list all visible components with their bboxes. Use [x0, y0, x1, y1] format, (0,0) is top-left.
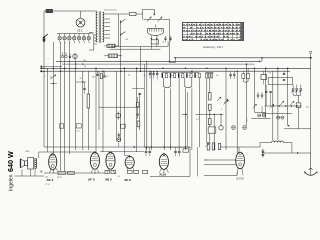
wire vertical u [178, 78, 180, 150]
svg-text:0,1: 0,1 [106, 76, 109, 78]
voltage table cell entries [183, 25, 243, 40]
tube pin wires V1 [50, 168, 52, 173]
tube V2 AF3 [90, 152, 99, 169]
bus junction dots [43, 68, 45, 70]
wire AVC bus [56, 60, 259, 62]
wire bottom resistor row [44, 172, 105, 174]
wire heater [104, 45, 107, 47]
wire mains section verticals [140, 47, 142, 72]
svg-text:25: 25 [128, 75, 130, 77]
wire vertical p [139, 93, 141, 130]
resistor R15 [136, 103, 139, 107]
coupling parts left of V5 [145, 151, 148, 153]
pickup jacks [62, 53, 64, 56]
svg-text:0,5: 0,5 [216, 75, 219, 77]
resistor R12 [128, 170, 133, 173]
capacitor C2 [169, 37, 171, 39]
wire vertical z9 [287, 68, 289, 125]
tube pin wires V6 [237, 168, 238, 175]
ground jack [69, 54, 71, 57]
dial pointer tick [154, 24, 156, 27]
power transformer T1 secondary [102, 12, 103, 42]
svg-text:5: 5 [287, 109, 288, 111]
capacitor C4 [103, 75, 105, 77]
wire top right loop [268, 76, 292, 78]
diode arrow D1 [120, 19, 126, 22]
transformer secondary taps [104, 13, 110, 15]
wire vertical z1 [213, 114, 215, 150]
resistor R6 [209, 104, 212, 110]
screen bus dots [75, 63, 76, 64]
wire vertical s [163, 89, 165, 151]
wire bridge left [50, 83, 57, 85]
svg-text:6: 6 [173, 75, 174, 77]
wire vertical k [102, 71, 104, 152]
tube pin wires V3 [107, 170, 108, 174]
output transformer right [272, 141, 284, 143]
wire mains left vertical [43, 11, 45, 68]
IF filter cluster 2 [206, 72, 214, 74]
wire selector to transformer [89, 32, 93, 34]
oscillator trimmer pair [232, 126, 236, 130]
wire gang bottom [293, 94, 301, 96]
wire vertical z4 [245, 64, 247, 126]
power transformer T1 core [98, 11, 100, 43]
svg-text:1: 1 [157, 80, 158, 82]
wire output to ground line [262, 152, 311, 154]
trimmer arrow P4 [253, 104, 257, 108]
wire vertical w [191, 89, 193, 151]
svg-text:6: 6 [195, 75, 196, 77]
wire antenna down [310, 58, 312, 153]
resistor R1 heater dropper [107, 44, 115, 47]
svg-text:0,1: 0,1 [118, 176, 121, 178]
trimmer arrow P5 [270, 104, 274, 108]
diode arrow D2 [120, 32, 126, 35]
phono socket [116, 113, 121, 118]
svg-text:≈50: ≈50 [125, 39, 128, 41]
voltage table grid [183, 23, 244, 41]
IF filter component row [162, 72, 200, 74]
svg-text:50: 50 [50, 77, 52, 79]
choke L1 hum filter [109, 54, 118, 58]
resistor R3 [87, 94, 90, 108]
resistor R2 [130, 13, 137, 16]
osc section wire h1 [265, 105, 302, 107]
osc caps [229, 73, 231, 75]
tube pin wires V4 [126, 167, 128, 171]
svg-text:150Ω: 150Ω [25, 151, 30, 153]
svg-text:20: 20 [80, 78, 82, 80]
capacitor C3 [96, 74, 98, 76]
rectifier tube V8 top view [76, 18, 85, 27]
junction dot heater [134, 146, 136, 148]
resistor R5 [209, 93, 212, 101]
padder trimmers [258, 114, 261, 117]
wire vertical n [123, 68, 125, 147]
wire vertical g [75, 60, 77, 150]
svg-text:Ingelen: Ingelen [9, 174, 15, 191]
tube pin wires V5 [159, 169, 161, 173]
power transformer T1 primary [96, 12, 97, 42]
wire vertical q [146, 61, 148, 150]
antenna link tick [261, 58, 263, 62]
svg-text:0,1: 0,1 [77, 131, 80, 133]
svg-text:2M: 2M [92, 77, 95, 79]
svg-text:AF 3: AF 3 [88, 177, 95, 181]
svg-text:JT 14: JT 14 [45, 184, 49, 186]
capacitor C5 [139, 93, 141, 95]
trimmer arrow P8 [290, 101, 294, 105]
wire right v [298, 95, 300, 103]
wire HT bus [41, 67, 311, 69]
trimmer arrow P1 [147, 17, 151, 22]
resistor R11 [105, 170, 110, 173]
wire vertical e [64, 42, 66, 171]
resistor R8 [261, 75, 267, 80]
wire vertical d [60, 42, 62, 171]
wire dial return upper [111, 46, 168, 48]
trimmer arrow P2 [158, 17, 162, 22]
speaker bottom rail [15, 175, 45, 177]
svg-text:AL 4: AL 4 [159, 173, 166, 177]
tube V1 AK2 [49, 154, 57, 170]
svg-text:4μ 2μ: 4μ 2μ [57, 177, 62, 179]
wire bridge mid [76, 81, 86, 83]
wire detector h [196, 113, 223, 115]
wire V6 top [238, 147, 240, 153]
wire vertical o [136, 68, 138, 152]
speaker right connection [259, 143, 261, 148]
capacitor C9 [261, 94, 263, 96]
wire v5 top [144, 146, 190, 148]
svg-text:EF 6: EF 6 [125, 178, 132, 182]
svg-text:1: 1 [60, 131, 61, 133]
wire choke [104, 55, 108, 57]
bus terminal dots [40, 67, 42, 69]
svg-text:220 150 125 110: 220 150 125 110 [104, 10, 117, 12]
tube V5 output [159, 154, 168, 169]
osc section wire h2 [262, 112, 292, 114]
diode arrow D3 [154, 9, 155, 15]
wire transformer top tap [110, 13, 129, 15]
trimmer arrow left [50, 75, 56, 79]
field coil wires [38, 152, 40, 158]
wire vertical v [185, 89, 187, 151]
phono jack [73, 54, 77, 58]
tube V6 [236, 152, 245, 168]
junction dots detector [209, 114, 210, 115]
svg-text:40: 40 [84, 66, 86, 68]
resistor R16 [120, 124, 125, 128]
wire to dial loop [136, 13, 143, 15]
wire right of V5 vertical [187, 92, 189, 147]
svg-text:0,3: 0,3 [269, 73, 272, 75]
wire vertical z7 [272, 71, 274, 140]
electrolytic C7 [219, 126, 223, 130]
wire rectifier anode [80, 11, 82, 18]
wire vertical i [95, 68, 97, 152]
wire vertical c [52, 42, 54, 154]
wire vertical r [150, 71, 152, 150]
wire vertical z5 [254, 68, 256, 112]
wire dial return lower [110, 48, 161, 50]
resistor R17 [60, 124, 64, 128]
resistor R4 [137, 121, 140, 127]
wire horizontal AF [99, 106, 140, 108]
svg-text:Ausführung ~ 220 V: Ausführung ~ 220 V [203, 46, 224, 49]
svg-text:25: 25 [163, 42, 165, 44]
jack J2 [117, 138, 121, 142]
wire vertical h [82, 71, 84, 150]
wire AF loop top [132, 88, 144, 90]
speaker LS cone [21, 159, 25, 168]
svg-text:AZ 1: AZ 1 [77, 28, 83, 32]
voltage selector bar [57, 33, 92, 35]
dial lamp leads [151, 35, 152, 39]
resistor R10 [68, 171, 75, 174]
wire V4 top corner [123, 147, 125, 155]
wire vertical z3 [236, 71, 238, 153]
tube V3 AB2 [106, 152, 115, 169]
svg-text:2: 2 [221, 109, 222, 111]
V6 grid parts [207, 143, 210, 150]
coupling parts right of V5 [174, 151, 177, 153]
ground symbol [310, 153, 312, 175]
IF coil loop 2 [185, 78, 192, 88]
tube pin wires V2 [91, 170, 92, 174]
wire vertical z2 [225, 68, 227, 150]
wire V6 left [204, 159, 236, 161]
wire V6 bottom long [204, 174, 237, 176]
heater bus dots [146, 146, 147, 147]
wire vertical y [206, 78, 208, 143]
mains switch S1 [43, 36, 45, 38]
wire vertical j [98, 71, 100, 130]
wire chassis bus [41, 70, 290, 72]
fuse F1 [46, 9, 53, 12]
dial lamp assembly [148, 29, 164, 36]
trimmer arrow P7 [280, 101, 284, 105]
svg-text:B 6752: B 6752 [237, 178, 245, 180]
voltage selector contacts [59, 34, 61, 37]
IF coil loop 1 [164, 78, 171, 88]
svg-text:μ14: μ14 [45, 177, 48, 179]
resistor R18 [76, 124, 81, 128]
transformer primary taps [94, 34, 97, 36]
osc section caps [265, 91, 267, 93]
cap C12 [118, 134, 120, 136]
speaker driver box [25, 161, 28, 166]
resistor R7 [209, 119, 212, 125]
IF transformer cans [242, 74, 245, 79]
svg-text:1: 1 [249, 75, 250, 77]
wire HT to smoothing [120, 20, 122, 71]
svg-text:∼: ∼ [47, 58, 49, 61]
svg-text:AB 2: AB 2 [105, 177, 112, 181]
wire vertical m [120, 71, 122, 141]
capacitor C1 [164, 37, 166, 39]
diode arrow D4 [224, 101, 229, 105]
resistor R14 [100, 74, 102, 79]
tube V4 [125, 156, 134, 168]
wire vertical a [43, 71, 45, 147]
wire screen bus [41, 65, 62, 67]
wire grid line [144, 18, 170, 20]
resistor R13 [143, 170, 148, 173]
svg-text:50: 50 [144, 75, 146, 77]
wire vertical l [115, 71, 117, 141]
wire bottom h2 [39, 151, 96, 153]
svg-text:640 W: 640 W [6, 151, 15, 172]
svg-text:7: 7 [44, 76, 45, 78]
wire vertical z8 [277, 68, 279, 140]
svg-text:50: 50 [230, 76, 232, 78]
wire right bottom h [284, 128, 311, 130]
wire HT vertical [118, 14, 120, 46]
tone cap stack [262, 149, 264, 158]
wire vertical t [170, 89, 172, 151]
wire vertical f [69, 42, 71, 154]
capacitor C11 [283, 79, 285, 81]
wire vertical b [47, 68, 49, 152]
capacitor C6 [136, 113, 138, 115]
resistor R9 [58, 171, 66, 174]
wire mains top [44, 10, 46, 12]
output transformer T2 frame [28, 158, 34, 170]
tuning gang capacitors [292, 85, 294, 89]
title text Ingelen 640 W (rotated) [6, 151, 15, 191]
trimmer arrow P6 [224, 99, 228, 103]
wire down from grid line [169, 19, 171, 62]
wire vertical z6 [265, 68, 267, 118]
voltage table dark right column [241, 23, 244, 40]
svg-text:0,1: 0,1 [196, 119, 199, 121]
capacitor C13 [83, 88, 85, 90]
svg-text:φ1: φ1 [205, 160, 207, 162]
capacitor C10 [283, 73, 285, 75]
wire heater bus bottom [44, 146, 190, 148]
antenna terminal [310, 57, 312, 59]
component box Z1 [208, 127, 216, 133]
wire V5 bottom [150, 175, 190, 177]
grid coupling caps [149, 71, 150, 72]
trimmer arrow P3 [217, 97, 221, 101]
dial lamp box [151, 40, 158, 44]
svg-text:25c: 25c [83, 60, 86, 62]
box right [296, 103, 301, 108]
capacitor C8 [257, 94, 259, 96]
wire vertical x [198, 78, 200, 147]
osc coil cluster [251, 117, 270, 119]
output transformer T2 winding [33, 158, 35, 168]
wire antenna bus [175, 57, 310, 59]
